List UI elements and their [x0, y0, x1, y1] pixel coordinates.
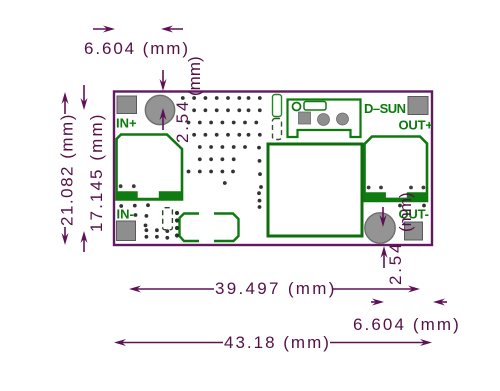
dimension 2.54 top down arrow: [160, 70, 167, 91]
capacitor C2 output outline: [365, 137, 428, 202]
svg-text:21.082 (mm): 21.082 (mm): [58, 113, 77, 226]
svg-text:2.54: 2.54: [386, 241, 405, 285]
svg-text:IN+: IN+: [116, 116, 137, 131]
IC U1 pad circle A: [318, 114, 330, 126]
dimension 17.145 up arrow: [81, 231, 88, 252]
bottom-left cluster: [119, 204, 123, 208]
svg-text:43.18 (mm): 43.18 (mm): [224, 333, 331, 352]
svg-text:17.145 (mm): 17.145 (mm): [87, 113, 106, 232]
dimension 6.604 bottom left arrow: [433, 299, 447, 306]
IC U1 pin1 circle: [293, 103, 301, 111]
svg-text:(mm): (mm): [185, 56, 204, 96]
pad OUT+: [408, 97, 428, 115]
board outline: [114, 92, 432, 246]
svg-text:6.604 (mm): 6.604 (mm): [84, 39, 190, 58]
dimension 21.082 up arrow: [62, 92, 69, 114]
IC U1 tab pad: [299, 112, 311, 124]
row 5: [198, 145, 202, 149]
svg-text:(mm): (mm): [396, 192, 415, 232]
svg-text:IN-: IN-: [117, 207, 134, 222]
IC U1 LM2596 outline: [288, 100, 361, 138]
column left of diode: [175, 211, 179, 215]
dimension 17.145 down arrow: [81, 85, 88, 110]
row 4: [192, 133, 196, 137]
dimension 6.604 top right arrow: [161, 26, 183, 33]
dimension 2.54 bottom down arrow: [380, 207, 387, 227]
svg-text:OUT+: OUT+: [399, 118, 434, 133]
capacitor C2 pins: [367, 186, 371, 190]
svg-text:2.54: 2.54: [173, 99, 192, 143]
svg-text:6.604 (mm): 6.604 (mm): [353, 315, 461, 334]
IC U1 label box: [304, 102, 326, 111]
resistor R2: [273, 119, 282, 140]
pins near OUT-: [398, 204, 402, 208]
capacitor C1 polarity bar: [117, 191, 182, 200]
capacitor C2 polarity bar: [365, 192, 427, 200]
resistor R1: [273, 95, 282, 117]
capacitor C1 input outline: [117, 135, 183, 200]
svg-text:D–SUN: D–SUN: [364, 101, 406, 116]
row 6: [198, 157, 202, 161]
svg-text:39.497 (mm): 39.497 (mm): [215, 279, 337, 298]
capacitor C3 small footprint: [163, 208, 173, 230]
capacitor C1 pins: [119, 184, 123, 188]
IC U1 pad circle B: [337, 113, 349, 125]
stray dots: [223, 181, 227, 185]
mounting hole H1 top-left: [145, 95, 174, 124]
pad IN-: [117, 221, 136, 241]
inductor L1 square: [268, 144, 362, 236]
dimension 21.082 down arrow: [62, 227, 69, 245]
row 2: [192, 108, 196, 112]
dimension 6.604 bottom right arrow: [371, 299, 384, 306]
row 3: [187, 121, 191, 125]
pad IN+: [117, 96, 137, 114]
dimension 2.54 bottom up arrow: [381, 246, 388, 268]
via dot grid: [119, 96, 426, 240]
row 7: [187, 170, 191, 174]
pad OUT-: [405, 222, 423, 240]
row 1: [181, 96, 185, 100]
dimension 6.604 top left arrow: [93, 26, 115, 33]
dimension 43.18 line: [114, 339, 432, 346]
dimension 2.54 top up arrow: [160, 108, 167, 130]
column right of diode: [257, 191, 261, 195]
dimension 39.497 line: [129, 286, 420, 293]
mounting hole H2 bottom-right: [365, 213, 395, 243]
diode D1 outline: [180, 214, 239, 242]
